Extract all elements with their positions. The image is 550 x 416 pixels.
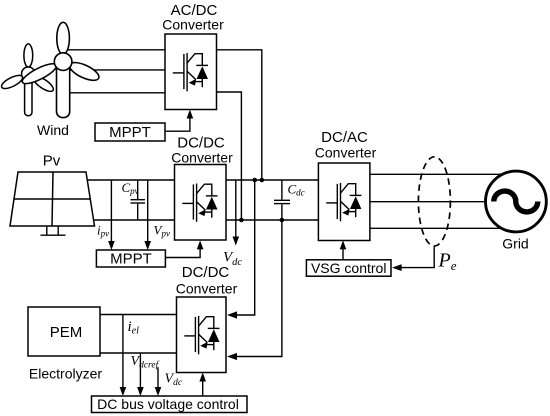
svg-text:Cdc: Cdc — [288, 182, 305, 198]
svg-text:ipv: ipv — [97, 223, 109, 239]
svg-text:Converter: Converter — [171, 150, 233, 166]
svg-text:PEM: PEM — [50, 324, 83, 341]
svg-text:VSG control: VSG control — [311, 260, 386, 276]
svg-text:DC bus voltage control: DC bus voltage control — [97, 396, 239, 412]
svg-text:MPPT: MPPT — [109, 124, 151, 141]
svg-text:DC/AC: DC/AC — [321, 129, 368, 146]
svg-text:Pe: Pe — [438, 250, 457, 274]
svg-text:Cpv: Cpv — [122, 180, 139, 196]
svg-text:Converter: Converter — [162, 17, 224, 33]
svg-text:Pv: Pv — [43, 153, 61, 170]
svg-text:iel: iel — [128, 319, 140, 337]
svg-text:Electrolyzer: Electrolyzer — [29, 366, 102, 382]
svg-text:Vdc: Vdc — [223, 250, 242, 269]
svg-text:Wind: Wind — [37, 122, 69, 138]
svg-text:DC/DC: DC/DC — [182, 264, 230, 281]
svg-text:Vdc: Vdc — [165, 372, 183, 389]
svg-text:Grid: Grid — [502, 236, 528, 252]
svg-text:Converter: Converter — [176, 281, 238, 297]
svg-text:MPPT: MPPT — [110, 251, 152, 268]
svg-text:Converter: Converter — [315, 145, 377, 161]
svg-text:Vpv: Vpv — [154, 223, 170, 239]
svg-text:Vdcref: Vdcref — [131, 354, 160, 371]
